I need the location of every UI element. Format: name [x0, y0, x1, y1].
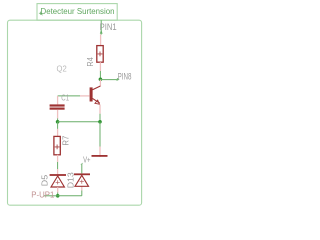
resistor R7	[54, 136, 60, 154]
diode D5 cathode bar	[50, 174, 66, 176]
title box	[37, 4, 117, 21]
pin C1 top	[57, 96, 59, 105]
node emitter junction	[98, 120, 102, 124]
svg-text:PIN1: PIN1	[100, 22, 117, 33]
svg-text:R7: R7	[61, 135, 71, 145]
wire PIN1 drop from frame	[100, 20, 102, 34]
svg-text:D5: D5	[40, 174, 50, 186]
capacitor C1 plate 1	[50, 104, 65, 106]
wire rail stub P-UP1	[44, 195, 58, 197]
pin R4 top	[100, 35, 102, 46]
svg-text:D13: D13	[65, 172, 75, 188]
svg-text:Detecteur Surtension: Detecteur Surtension	[41, 6, 115, 16]
pin Q2 base	[80, 95, 90, 97]
node bottom rail junction	[56, 194, 60, 198]
pin R7 top	[57, 129, 59, 137]
diode D5 triangle	[51, 176, 64, 187]
svg-text:R4: R4	[85, 57, 95, 67]
pin arrow PIN1	[100, 31, 102, 34]
pin Q2 collector	[99, 80, 101, 87]
title origin mark	[39, 12, 43, 16]
transistor Q2 collector stroke	[93, 86, 101, 90]
pin V+	[99, 147, 101, 158]
svg-text:P-UP1: P-UP1	[31, 190, 54, 199]
svg-text:C1: C1	[61, 94, 69, 103]
diode D13 cathode bar	[74, 173, 90, 175]
pin R4 bottom	[99, 62, 101, 71]
supply mark D13 V+	[81, 163, 83, 165]
pin Q2 emitter	[99, 105, 101, 114]
svg-text:PIN8: PIN8	[118, 72, 132, 82]
pin R7 bottom	[57, 155, 59, 162]
pin C1 bottom	[57, 110, 59, 119]
wire R7 to D5	[57, 162, 59, 169]
wire R4 to node	[99, 71, 101, 79]
wire base to C1	[58, 95, 80, 97]
transistor Q2 emitter arrow	[95, 100, 100, 104]
node base rail left junction	[56, 120, 60, 124]
pin D5 anode	[57, 187, 59, 192]
svg-text:V+: V+	[83, 156, 91, 165]
wire rail D5 to D13	[58, 195, 82, 197]
diode D13 triangle	[75, 175, 89, 186]
capacitor C1 plate 2	[50, 108, 65, 110]
transistor Q2 emitter stroke	[93, 98, 100, 103]
wire node to V+	[99, 122, 101, 147]
wire D5 to rail	[57, 193, 59, 196]
resistor R4	[97, 46, 103, 63]
wire node to PIN8	[100, 79, 118, 81]
node collector junction	[99, 78, 103, 82]
pin D5 cathode	[57, 169, 59, 174]
svg-text:Q2: Q2	[57, 65, 68, 74]
transistor Q2 base bar	[90, 87, 93, 101]
wire emitter to node	[99, 114, 101, 122]
wire C1 to node	[57, 118, 59, 121]
supply V+ bar	[92, 155, 108, 157]
wire D13 to rail	[81, 191, 83, 196]
wire D13 cathode stub V+	[81, 164, 83, 173]
pin D13 anode	[81, 186, 83, 190]
wire R7 top	[57, 122, 59, 129]
pin arrow PIN8	[117, 78, 119, 80]
wire rail C1 to emitter	[58, 121, 100, 123]
